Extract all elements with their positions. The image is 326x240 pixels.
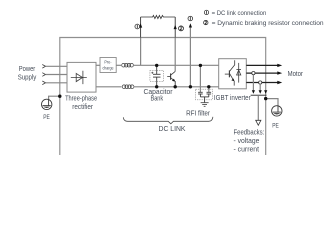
node: junction dot 1b bottom rail (189, 85, 192, 88)
node: circled 1 label left (135, 24, 140, 29)
wire: input phase L2 (46, 74, 68, 76)
wire: DC link terminal 1 drop (140, 17, 142, 38)
node: current sensor V (252, 72, 255, 75)
inductor L2: DC- choke (122, 85, 134, 89)
ground: PE symbol left (42, 99, 52, 109)
node: junction dot PE right (264, 97, 267, 100)
wire: feedback summing bar (251, 94, 267, 96)
capacitor C2: RFI filter Y-caps (196, 89, 213, 102)
wire: drive enclosure outline (60, 38, 266, 156)
svg-text:Bank: Bank (151, 93, 164, 102)
transistor Q2: inverter IGBT with diode (225, 60, 241, 85)
terminal chevron L3 (42, 81, 45, 85)
node: junction dot RFI bottom (207, 85, 210, 88)
node: junction dot cap top (155, 64, 158, 67)
svg-text:Motor: Motor (288, 69, 304, 78)
wire: braking resistor terminal 2 drop (174, 17, 176, 38)
resistor R1: braking resistor (141, 15, 176, 18)
node: junction dot RFI top (199, 64, 202, 67)
svg-text:rectifier: rectifier (72, 102, 93, 111)
svg-text:PE: PE (272, 123, 279, 130)
wire: chopper emitter to DC- rail (174, 81, 176, 87)
wire: input phase L3 (46, 82, 68, 84)
ground: RFI filter earth (201, 103, 209, 107)
transistor Q1: braking chopper IGBT (167, 71, 175, 80)
svg-text:IGBT inverter: IGBT inverter (214, 93, 251, 102)
wire: motor phase U (246, 64, 278, 66)
ground: PE symbol right (272, 106, 282, 116)
wire: motor phase V (246, 72, 278, 74)
svg-text:- current: - current (234, 145, 260, 154)
svg-text:RFI filter: RFI filter (186, 108, 210, 117)
node: circled 1 label above (188, 16, 193, 21)
node: junction dot cap bottom (155, 85, 158, 88)
op-amp U1: three-phase rectifier box (67, 62, 96, 92)
node: terminal 1 arrow (139, 23, 142, 27)
wire: feedback line down (257, 95, 259, 120)
wire: feedback drop V (252, 75, 254, 91)
terminal chevron L2 (42, 73, 45, 77)
wire: DC+ rail pre-charge to inductor (116, 64, 121, 66)
diode D1: rectifier diode symbol (71, 71, 87, 84)
svg-text:DC LINK: DC LINK (159, 124, 186, 133)
node: circled 2 label (179, 26, 184, 31)
node: DC LINK brace (123, 117, 213, 124)
node: junction dot PE left (58, 95, 61, 98)
svg-text:Pre-: Pre- (104, 60, 112, 65)
node: junction dot chopper emitter (174, 85, 177, 88)
node: terminal 1b arrow (189, 23, 192, 27)
op-amp U2: IGBT inverter box (219, 59, 247, 89)
wire: PE branch right (266, 99, 278, 106)
svg-text:charge: charge (103, 65, 114, 70)
wire: PE branch left (49, 96, 60, 100)
wire: DC- rail inductor to inverter (133, 86, 218, 88)
node: legend line 1 (204, 10, 266, 17)
wire: feedback drop U via enclosure edge (264, 90, 267, 94)
terminal chevron L1 (42, 65, 45, 69)
capacitor C1: DC bus capacitor bank (150, 65, 164, 86)
wire: DC+ rail inductor to inverter (133, 64, 219, 66)
wire: input phase L1 (46, 65, 68, 67)
wire: DC- rail rectifier to inductor (96, 86, 122, 88)
wire: DC link terminal 1b drop (189, 25, 191, 87)
node: terminal 2 arrow (174, 25, 177, 29)
wire: RFI filter drop from DC- (208, 87, 210, 92)
wire: RFI filter drop from DC+ (199, 65, 201, 92)
inductor L1: DC+ choke (122, 63, 134, 67)
node: feedback open arrow (256, 120, 261, 125)
wire: DC+ rail rectifier to pre-charge (96, 64, 100, 66)
svg-text:Supply: Supply (18, 72, 37, 81)
component: pre-charge box (100, 58, 116, 73)
svg-text:PE: PE (43, 114, 50, 121)
node: legend line 2 (204, 20, 324, 27)
svg-text:= Dynamic braking resistor con: = Dynamic braking resistor connection (212, 20, 324, 27)
svg-text:= DC link connection: = DC link connection (212, 10, 267, 17)
wire: feedback drop W (259, 84, 261, 91)
wire: motor phase W (246, 82, 278, 84)
node: current sensor W (259, 81, 262, 84)
